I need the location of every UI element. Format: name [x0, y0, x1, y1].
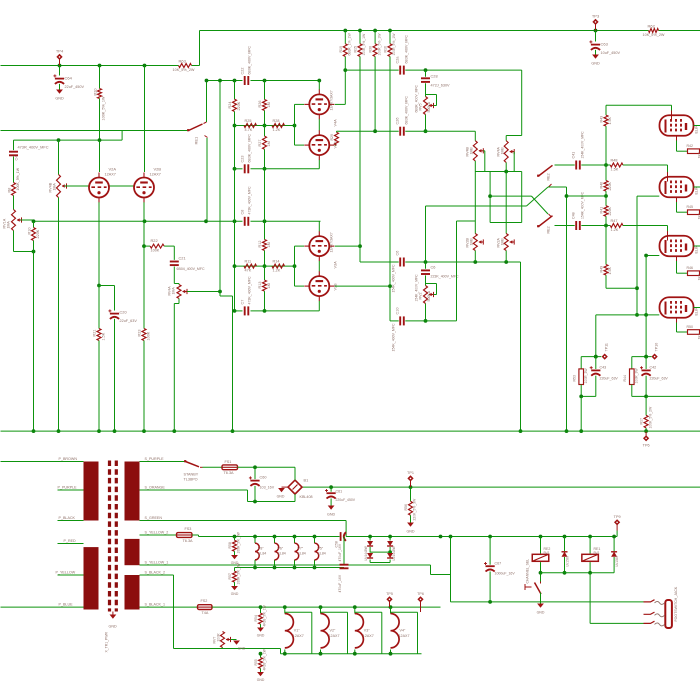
junction — [612, 535, 616, 539]
wire — [595, 31, 597, 42]
ground GND of R56 — [407, 523, 414, 527]
connector pin sleeve — [644, 621, 655, 623]
wire — [389, 31, 391, 44]
wire — [505, 163, 507, 172]
wire — [370, 562, 390, 564]
junction — [488, 600, 492, 604]
junction — [353, 652, 357, 656]
resistor R45 — [688, 210, 700, 215]
wire — [174, 303, 179, 305]
junction — [253, 566, 257, 570]
wire — [457, 220, 476, 222]
svg-text:R45: R45 — [687, 205, 694, 209]
junction — [319, 652, 323, 656]
wire — [605, 196, 607, 206]
wire — [99, 99, 101, 141]
svg-text:220uF_63V: 220uF_63V — [650, 377, 669, 381]
svg-text:R54: R54 — [254, 615, 258, 621]
wire — [434, 105, 437, 107]
wire — [359, 31, 361, 44]
wire — [632, 356, 652, 358]
junction — [565, 194, 569, 198]
wire — [606, 104, 672, 106]
svg-text:C21: C21 — [179, 256, 186, 261]
svg-text:200R: 200R — [217, 633, 221, 642]
svg-text:P_RED: P_RED — [64, 539, 77, 543]
capacitor C7 — [244, 306, 246, 315]
wire — [144, 66, 146, 173]
wire — [318, 160, 320, 169]
wire — [114, 286, 116, 311]
junction — [293, 124, 297, 128]
wire — [410, 487, 412, 501]
svg-text:V2A: V2A — [109, 167, 117, 172]
junction — [233, 535, 237, 539]
wire — [345, 521, 347, 537]
wire — [231, 639, 237, 641]
transformer T1 secondary winding 3 — [125, 575, 140, 610]
junction — [388, 29, 392, 33]
svg-text:GND: GND — [238, 647, 246, 651]
svg-text:S_PURPLE: S_PURPLE — [145, 457, 165, 461]
wire — [33, 241, 35, 252]
wire — [677, 211, 688, 213]
svg-text:RE1: RE1 — [194, 136, 199, 145]
wire — [520, 262, 522, 431]
wire — [369, 560, 371, 563]
wire — [232, 296, 234, 431]
wire — [251, 220, 321, 222]
triode V3A — [309, 236, 329, 256]
wire — [645, 357, 647, 369]
svg-text:473R_400V_MFC: 473R_400V_MFC — [18, 145, 49, 150]
wire — [254, 560, 256, 568]
wire — [234, 112, 236, 126]
wire — [676, 141, 678, 152]
svg-text:P_BLUE: P_BLUE — [59, 603, 74, 607]
wire — [589, 562, 591, 573]
wire — [99, 285, 115, 287]
wire — [374, 31, 376, 44]
svg-text:GND: GND — [406, 530, 414, 534]
wire — [295, 245, 305, 247]
capacitor C22 — [244, 76, 246, 85]
svg-text:100K: 100K — [151, 249, 160, 253]
resistor R28 — [272, 124, 285, 128]
wire — [595, 315, 597, 357]
wire — [14, 139, 123, 141]
junction — [644, 355, 648, 359]
wire — [475, 171, 521, 173]
svg-text:1000uF_16V: 1000uF_16V — [495, 572, 516, 576]
wire — [254, 467, 256, 479]
junction — [644, 254, 648, 258]
wire — [99, 66, 101, 89]
svg-text:1M: 1M — [267, 102, 271, 107]
wire — [248, 501, 296, 503]
wire — [346, 536, 617, 538]
wire — [294, 104, 296, 125]
junction — [142, 429, 146, 433]
capacitor C40 — [575, 221, 577, 230]
wire — [370, 551, 390, 553]
ground GND of core — [112, 612, 114, 615]
wire — [284, 650, 286, 654]
wire — [631, 385, 633, 397]
junction — [218, 79, 222, 83]
svg-text:100R_3W: 100R_3W — [635, 368, 639, 384]
junction — [293, 264, 297, 268]
wire — [636, 196, 638, 315]
wire — [564, 537, 566, 552]
svg-text:154K_400V_MFC: 154K_400V_MFC — [392, 323, 396, 352]
svg-text:KBL408: KBL408 — [300, 495, 313, 499]
capacitor C58 inline — [340, 532, 342, 541]
svg-text:EL84: EL84 — [278, 552, 286, 556]
resistor R62 — [649, 29, 659, 33]
ground GND of RV7 — [233, 641, 240, 645]
wire — [677, 272, 688, 274]
junction — [313, 535, 317, 539]
wire — [646, 395, 700, 397]
wire — [347, 612, 349, 654]
junction — [635, 286, 639, 290]
svg-text:S_ORANGE: S_ORANGE — [145, 486, 166, 490]
wire — [589, 573, 591, 624]
wire — [425, 262, 427, 269]
svg-text:4R99_5%_1W: 4R99_5%_1W — [263, 648, 267, 670]
wire — [425, 304, 427, 321]
wire — [1, 461, 84, 463]
wire — [389, 286, 391, 321]
junction — [233, 219, 237, 223]
svg-text:6B3K_400V_MFC: 6B3K_400V_MFC — [405, 35, 409, 64]
wire — [581, 395, 596, 397]
svg-text:RE2: RE2 — [547, 226, 551, 233]
wire — [1, 65, 179, 67]
wire — [251, 168, 320, 170]
testpoint TP8 — [417, 596, 423, 602]
svg-text:RV5: RV5 — [419, 103, 423, 110]
junction — [504, 170, 508, 174]
wire — [355, 611, 382, 613]
wire — [14, 251, 34, 253]
svg-text:V7": V7" — [298, 547, 304, 551]
svg-text:V3A: V3A — [334, 261, 338, 269]
junction — [368, 535, 372, 539]
wire — [294, 560, 296, 568]
wire — [164, 245, 174, 247]
ground GND of R58 — [231, 555, 238, 559]
wire — [389, 560, 391, 563]
wire — [613, 537, 615, 552]
junction — [439, 535, 443, 539]
wire — [676, 323, 678, 333]
wire — [33, 252, 35, 432]
junction — [259, 652, 263, 656]
potentiometer RV5 — [424, 97, 428, 115]
wire — [405, 320, 456, 322]
svg-text:T6.3A: T6.3A — [183, 539, 194, 543]
capacitor C41 — [575, 161, 577, 170]
svg-text:470uF_16V: 470uF_16V — [338, 574, 342, 592]
svg-text:1M: 1M — [267, 242, 271, 247]
svg-text:R29: R29 — [330, 134, 334, 141]
svg-text:R40: R40 — [600, 182, 604, 189]
wire V5 cathode — [676, 136, 678, 141]
svg-text:GND: GND — [55, 97, 64, 101]
junction — [358, 244, 362, 248]
wire — [264, 221, 266, 239]
wire — [581, 356, 601, 358]
svg-text:TP9: TP9 — [614, 515, 621, 519]
svg-text:1MA: 1MA — [7, 221, 11, 229]
junction — [329, 485, 333, 489]
wire — [114, 319, 116, 431]
junction — [98, 138, 102, 142]
wire — [335, 285, 390, 287]
wire — [623, 225, 668, 227]
svg-text:R56: R56 — [404, 504, 408, 511]
wire — [659, 30, 700, 32]
wire — [344, 70, 346, 104]
svg-text:R12: R12 — [258, 241, 262, 248]
svg-text:R47: R47 — [611, 219, 618, 223]
wire — [580, 385, 582, 397]
wire — [606, 287, 637, 289]
svg-text:R10: R10 — [28, 228, 32, 235]
junction — [263, 124, 267, 128]
wire — [295, 103, 305, 105]
svg-text:100K_5%_1W: 100K_5%_1W — [102, 96, 106, 121]
wire — [489, 537, 491, 565]
svg-text:220K_5%_3W: 220K_5%_3W — [413, 498, 417, 521]
wire V6 cathode — [676, 197, 678, 202]
svg-text:1.5K: 1.5K — [102, 332, 106, 340]
capacitor C8 — [244, 217, 246, 226]
wire — [295, 285, 305, 287]
wire — [320, 650, 322, 654]
wire — [143, 202, 145, 221]
svg-text:1MB: 1MB — [501, 147, 505, 155]
wire — [318, 261, 320, 271]
svg-text:GND: GND — [327, 513, 335, 517]
wire — [645, 376, 647, 397]
junction — [604, 224, 608, 228]
wire — [260, 607, 262, 613]
ground GND of R54 — [257, 628, 264, 632]
wire — [13, 140, 15, 150]
wire — [260, 669, 262, 673]
transformer T1 secondary winding 1 — [125, 462, 140, 521]
resistor R11 — [244, 264, 257, 268]
resistor R8 — [12, 183, 16, 196]
pentode V7 — [660, 236, 694, 257]
svg-text:1MA: 1MA — [172, 287, 176, 295]
svg-text:1.2K: 1.2K — [273, 128, 281, 132]
wire — [280, 649, 282, 654]
svg-text:223K_400V_MFC: 223K_400V_MFC — [431, 275, 460, 279]
wire — [425, 275, 427, 285]
wire — [389, 547, 391, 553]
pentode V5 — [660, 115, 694, 136]
wire — [173, 304, 175, 432]
svg-text:LV1587: LV1587 — [566, 555, 570, 566]
wire — [321, 611, 348, 613]
wire — [489, 172, 491, 223]
wire — [264, 266, 266, 280]
svg-text:V2": V2" — [330, 629, 336, 633]
svg-text:S_BLACK_2: S_BLACK_2 — [145, 571, 166, 575]
junction — [263, 264, 267, 268]
junction — [32, 219, 36, 223]
wire — [121, 131, 123, 141]
wire — [98, 202, 100, 285]
wire — [532, 196, 549, 214]
ground GND of C64 — [56, 90, 63, 94]
wire — [173, 267, 175, 284]
svg-text:X_TR1_PWR: X_TR1_PWR — [105, 632, 109, 653]
wire — [235, 265, 295, 267]
wire — [207, 80, 243, 82]
svg-text:CHANNEL_SEL: CHANNEL_SEL — [526, 559, 530, 584]
junction — [32, 429, 36, 433]
resistor R25 — [244, 124, 257, 128]
wire — [254, 537, 256, 544]
junction — [358, 29, 362, 33]
wire — [374, 57, 376, 132]
wire — [13, 231, 15, 252]
wire — [264, 169, 266, 222]
svg-text:R26: R26 — [258, 101, 262, 108]
svg-text:R55: R55 — [254, 659, 258, 665]
wire — [220, 295, 233, 297]
svg-text:GND: GND — [109, 625, 117, 629]
svg-text:100K_5%_1W: 100K_5%_1W — [362, 33, 366, 56]
junction — [644, 429, 648, 433]
svg-text:220K: 220K — [36, 229, 40, 238]
svg-text:TP6: TP6 — [417, 592, 424, 596]
svg-text:V1": V1" — [294, 629, 300, 633]
wire — [174, 283, 179, 285]
junction — [519, 429, 523, 433]
junction — [579, 395, 583, 399]
wire — [247, 490, 249, 502]
svg-text:22uF_450V: 22uF_450V — [65, 85, 85, 89]
junction — [594, 355, 598, 359]
wire — [581, 164, 610, 166]
svg-text:12AX7: 12AX7 — [105, 173, 116, 177]
wire — [311, 612, 313, 654]
svg-text:C8: C8 — [241, 210, 245, 215]
wire — [513, 152, 515, 172]
wire — [21, 219, 34, 221]
junction — [389, 652, 393, 656]
svg-text:R62: R62 — [648, 24, 656, 29]
wire — [344, 31, 346, 44]
svg-text:1.5K: 1.5K — [608, 116, 612, 124]
wire — [436, 95, 438, 106]
wire — [143, 341, 145, 432]
wire — [505, 251, 507, 263]
svg-text:EL84: EL84 — [258, 552, 266, 556]
wire — [140, 489, 248, 491]
junction — [97, 284, 101, 288]
wire — [580, 396, 582, 431]
wire — [344, 57, 346, 71]
wire — [318, 221, 320, 231]
svg-text:TP1: TP1 — [407, 471, 414, 475]
resistor R46 — [688, 271, 700, 276]
wire — [505, 172, 507, 234]
testpoint TP5 — [386, 596, 392, 602]
wire — [58, 574, 84, 576]
svg-text:12AX7/3AX7: 12AX7/3AX7 — [330, 90, 334, 110]
junction — [253, 535, 257, 539]
wire — [178, 299, 180, 304]
svg-text:V5": V5" — [318, 547, 324, 551]
svg-text:100K_5%_2W: 100K_5%_2W — [648, 406, 652, 429]
fuse FS3 — [177, 533, 193, 538]
testpoint TP1 — [407, 475, 413, 481]
wire — [34, 220, 243, 222]
svg-text:9V1: 9V1 — [544, 551, 550, 555]
junction — [563, 535, 567, 539]
wire — [354, 650, 356, 654]
wire — [667, 226, 669, 232]
junction — [389, 605, 393, 609]
wire — [314, 560, 316, 568]
bridge rectifier B1 — [288, 480, 302, 494]
junction — [283, 652, 287, 656]
wire — [98, 286, 100, 329]
svg-text:C28: C28 — [431, 74, 438, 79]
ground GND of R57 — [231, 586, 238, 590]
wire — [264, 291, 266, 311]
wire — [234, 537, 236, 541]
wire — [192, 65, 200, 67]
wire — [430, 565, 432, 575]
wire — [645, 396, 647, 415]
junction — [233, 167, 237, 171]
resistor R14 — [272, 264, 285, 268]
wire — [235, 310, 243, 312]
testpoint TP9 — [614, 519, 620, 525]
wire — [144, 245, 150, 247]
wire — [566, 187, 568, 431]
relay contact RE1 — [189, 124, 203, 131]
svg-text:RE2: RE2 — [547, 173, 551, 180]
svg-text:C63: C63 — [601, 42, 609, 47]
svg-text:473K_400V_MFC: 473K_400V_MFC — [248, 276, 252, 305]
svg-text:6B3K_1%_1W: 6B3K_1%_1W — [348, 33, 352, 56]
resistor R63 — [179, 64, 192, 68]
wire — [613, 557, 615, 573]
resistor R48 — [610, 163, 623, 167]
wire — [426, 283, 437, 285]
svg-text:R20: R20 — [94, 89, 98, 96]
junction — [388, 284, 392, 288]
svg-text:12AX7: 12AX7 — [150, 173, 161, 177]
testpoint TP3 — [592, 19, 598, 25]
svg-text:1M: 1M — [267, 141, 271, 146]
pentode V6 — [660, 177, 694, 198]
wire — [65, 185, 89, 187]
svg-text:TP4: TP4 — [56, 49, 64, 54]
svg-text:154K_400V_MFC: 154K_400V_MFC — [581, 131, 585, 159]
switch STANBY TL38PO — [186, 462, 200, 467]
wire — [694, 125, 700, 127]
